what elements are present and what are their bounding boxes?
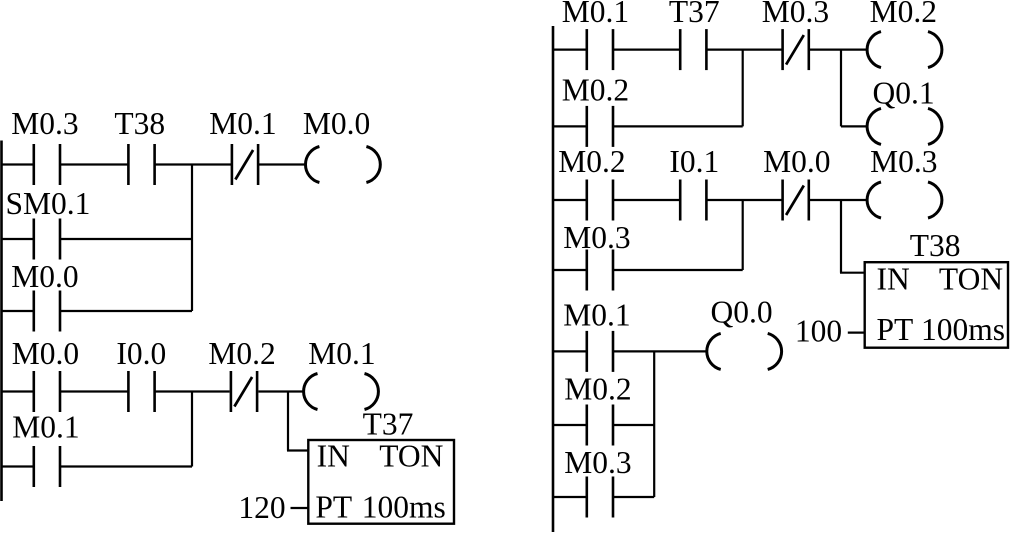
svg-text:TON: TON [939,262,1003,297]
wire to T38 IN input [840,200,842,273]
wire r-rung1 rail to M0.1 [553,48,587,50]
svg-text:M0.1: M0.1 [308,336,375,371]
wire r-rung3 M0.1 to coil [613,350,708,352]
svg-text:M0.0: M0.0 [763,144,830,179]
svg-text:100ms: 100ms [362,490,446,525]
svg-text:Q0.0: Q0.0 [711,295,773,330]
svg-text:M0.1: M0.1 [562,0,629,29]
coil M0.1 rung2 [304,336,379,410]
svg-text:M0.2: M0.2 [870,0,937,29]
wire r-rung1 M0.3 to coil [809,48,867,50]
wire r-rung2 I0.1 to M0.0 [707,199,783,201]
wire PT input dash [848,332,865,334]
svg-text:M0.1: M0.1 [563,298,630,333]
wire junction vertical rung2 parallel [191,392,193,467]
svg-text:PT: PT [315,490,352,525]
svg-text:IN: IN [877,262,910,297]
wire rung1 T38 to M0.1 [154,163,232,165]
wire M0.2 branch rail to contact [553,125,587,127]
contact M0.3 branch [563,220,630,291]
contact M0.3 [11,106,78,185]
wire M0.2 branch to junction [613,125,743,127]
wire junction vertical rung1 parallel [191,165,193,312]
contact M0.2 r-rung2 [558,144,625,221]
wire rung1 M0.3 to T38 [60,163,129,165]
coil M0.3 coil [867,144,942,218]
contact T38 [114,106,165,185]
wire M0.0 branch rail to contact [2,310,34,312]
wire M0.0 branch to junction [60,310,192,312]
svg-text:M0.0: M0.0 [11,259,78,294]
NC contact M0.2 rung2 [208,336,275,412]
coil M0.0 [303,106,380,183]
svg-text:100ms: 100ms [921,312,1005,347]
svg-text:M0.1: M0.1 [209,106,276,141]
svg-text:I0.0: I0.0 [116,336,166,371]
wire r-rung2 M0.2 to I0.1 [613,199,680,201]
svg-text:T38: T38 [910,228,961,263]
svg-text:M0.1: M0.1 [12,410,79,445]
coil Q0.0 [707,295,782,370]
wire junction vertical rung3 parallel [653,351,655,497]
wire junction vertical M0.3 parallel [742,200,744,270]
wire rung2 I0.0 to M0.2 [154,390,229,392]
wire r M0.3 branch rail to contact [553,496,587,498]
wire r-rung2 rail to M0.2 [553,199,587,201]
contact SM0.1 [5,186,90,260]
wire rung2 rail to M0.0 [2,390,34,392]
svg-text:M0.0: M0.0 [12,336,79,371]
contact M0.0 rung2 [12,336,79,412]
svg-text:100: 100 [795,314,842,349]
wire r M0.3 branch to junction [613,496,655,498]
svg-text:M0.3: M0.3 [11,106,78,141]
NC contact M0.1 rung1 [209,106,276,185]
contact T37 contact [669,0,720,70]
wire r-rung1 M0.1 to T37 [613,48,680,50]
coil Q0.1 [867,76,942,145]
contact M0.3 branch2 [564,445,631,518]
contact M0.0 branch [11,259,78,332]
wire to T37 IN input [287,392,289,451]
svg-text:T38: T38 [114,106,165,141]
svg-text:IN: IN [317,439,350,474]
contact M0.2 branch2 [564,372,631,446]
contact M0.1 r-rung1 [562,0,629,70]
wire M0.3 branch rail to contact [553,269,587,271]
wire r-rung3 rail to M0.1 [553,350,587,352]
wire r-rung1 T37 to M0.3 [707,48,783,50]
wire M0.1 branch rail to contact [2,465,34,467]
svg-text:T37: T37 [669,0,720,29]
timer T38 box [865,228,1008,348]
contact M0.1 branch [12,410,79,488]
contact I0.0 [116,336,166,412]
wire junction vertical Q0.1 branch [840,50,842,127]
wire M0.1 branch to junction [60,465,192,467]
NC contact M0.0 r-rung2 [763,144,830,221]
svg-text:SM0.1: SM0.1 [5,186,90,221]
coil M0.2 coil [867,0,942,68]
right power rail [552,26,555,532]
wire rung2 M0.2 to coil [259,390,305,392]
svg-text:M0.3: M0.3 [564,445,631,480]
wire r M0.2 branch to junction [613,424,655,426]
wire r M0.2 branch rail to contact [553,424,587,426]
NC contact M0.3 r-rung1 [762,0,829,70]
contact M0.1 r-rung3 [563,298,630,372]
wire r-rung2 M0.0 to coil [809,199,867,201]
svg-text:T37: T37 [363,407,414,442]
svg-text:M0.3: M0.3 [762,0,829,29]
wire rung2 M0.0 to I0.0 [60,390,129,392]
contact M0.2 branch [562,73,629,147]
wire rung1 M0.1 to coil [258,163,306,165]
wire rung1 rail to M0.3 [2,163,34,165]
wire SM0.1 branch rail to contact [2,238,34,240]
wire M0.3 branch to junction [613,269,743,271]
svg-text:M0.2: M0.2 [208,336,275,371]
svg-text:M0.2: M0.2 [564,372,631,407]
wire SM0.1 branch to junction [60,238,192,240]
svg-text:M0.2: M0.2 [558,144,625,179]
timer T37 box [308,407,454,525]
svg-text:PT: PT [877,312,914,347]
contact I0.1 [669,144,719,221]
svg-text:I0.1: I0.1 [669,144,719,179]
left power rail [0,141,3,502]
svg-text:M0.0: M0.0 [303,106,370,141]
svg-text:120: 120 [238,490,285,525]
wire PT input dash [291,507,309,509]
svg-text:M0.3: M0.3 [563,220,630,255]
svg-text:M0.3: M0.3 [870,144,937,179]
svg-text:TON: TON [379,439,443,474]
wire junction vertical M0.2 parallel [742,50,744,127]
svg-text:M0.2: M0.2 [562,73,629,108]
svg-text:Q0.1: Q0.1 [873,76,935,111]
